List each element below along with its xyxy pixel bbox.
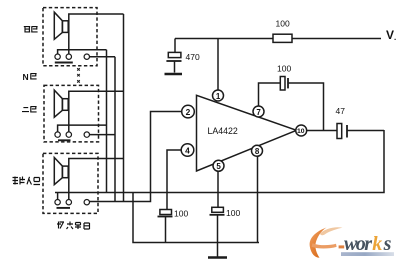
wire ground rail drop bbox=[133, 193, 259, 243]
svg-text:s: s bbox=[383, 233, 392, 255]
wire bus line 1 (terminal bars) bbox=[106, 50, 108, 193]
logo hyphen bbox=[339, 245, 345, 248]
label 二层 (second floor) bbox=[22, 107, 37, 112]
wire common return line bbox=[55, 130, 384, 193]
node box1 terminal 2 bbox=[66, 54, 71, 59]
polarity mark box2 bbox=[58, 139, 71, 141]
pin 1 bbox=[213, 90, 224, 101]
node box2 terminal 3 bbox=[84, 132, 89, 137]
e-works logo bbox=[310, 227, 394, 258]
pin 5 bbox=[213, 160, 224, 171]
capacitor C4 100 bbox=[158, 210, 173, 243]
pin 10 bbox=[296, 125, 307, 136]
node box1 terminal 3 bbox=[84, 54, 89, 59]
wire box1 terminal bar bbox=[58, 50, 107, 54]
capacitor C1 470 bbox=[166, 39, 181, 73]
wire box1 terminal3 to bus bbox=[90, 56, 116, 58]
node box3 terminal 2 bbox=[66, 200, 71, 205]
wire LS2 top to bus bbox=[69, 91, 124, 132]
label 顶层 (top floor) bbox=[24, 27, 38, 32]
svg-text:V.: V. bbox=[386, 28, 396, 42]
wire LS1 top to bus bbox=[69, 14, 124, 54]
svg-text:100: 100 bbox=[277, 64, 291, 74]
capacitor C2 100 (feedback) bbox=[280, 77, 288, 91]
wire pin5 to C5 bbox=[217, 171, 219, 207]
svg-text:2: 2 bbox=[186, 107, 191, 117]
polarity mark box1 bbox=[55, 62, 73, 64]
wire bus line 3 (speaker tops) bbox=[123, 14, 125, 202]
component value and pin labels bbox=[174, 19, 396, 219]
logo halo bbox=[320, 227, 343, 235]
resistor R1 100 bbox=[273, 34, 292, 42]
logo underline bar bbox=[341, 252, 394, 256]
pin 4 bbox=[181, 144, 194, 157]
ground for C1 bbox=[165, 73, 183, 75]
speaker box 2 dashed enclosure bbox=[44, 85, 99, 141]
continuation marks between boxes bbox=[77, 68, 80, 82]
pin 7 bbox=[253, 106, 264, 117]
wire feedback cap to output bbox=[288, 83, 324, 130]
svg-text:47: 47 bbox=[336, 106, 346, 116]
svg-text:100: 100 bbox=[226, 208, 240, 218]
wire box2 terminal3 to bus bbox=[90, 134, 116, 136]
pin 8 bbox=[252, 145, 263, 156]
wire LS3 top to bus bbox=[69, 159, 124, 200]
node box2 terminal 1 bbox=[55, 132, 60, 137]
wire V+ rail bbox=[175, 38, 381, 40]
node box3 terminal 1 bbox=[55, 200, 60, 205]
loudspeaker LS2 bbox=[54, 90, 68, 117]
label 操作人员 (operators) bbox=[13, 177, 41, 185]
speaker box 1 dashed enclosure bbox=[43, 8, 97, 66]
wire pin10 to C3 bbox=[307, 130, 337, 132]
svg-text:1: 1 bbox=[216, 92, 221, 101]
svg-text:4: 4 bbox=[185, 145, 190, 155]
wire C3 to right drop bbox=[347, 130, 384, 132]
svg-text:LA4422: LA4422 bbox=[208, 126, 238, 136]
wire box3 terminal1 stub bbox=[57, 193, 59, 200]
loudspeaker LS1 bbox=[54, 12, 68, 39]
wire pin2 to speaker terminals bbox=[90, 112, 183, 202]
ground symbol bbox=[208, 243, 227, 258]
logo e crossbar bbox=[312, 243, 337, 248]
svg-text:7: 7 bbox=[256, 108, 261, 117]
node box2 terminal 2 bbox=[66, 132, 71, 137]
wire pin8 to ground rail bbox=[257, 156, 259, 242]
node box3 terminal 3 bbox=[84, 200, 89, 205]
wire bus line 2 (terminal 3s) bbox=[114, 57, 116, 202]
wire pin7 to feedback cap bbox=[259, 83, 281, 106]
svg-text:wor: wor bbox=[344, 233, 372, 255]
svg-text:8: 8 bbox=[255, 147, 260, 156]
svg-text:100: 100 bbox=[276, 19, 290, 29]
op-amp U1 LA4422 bbox=[197, 95, 297, 171]
loudspeaker LS3 bbox=[54, 158, 68, 185]
capacitor C5 100 bbox=[210, 207, 225, 242]
wire pin1 to rail bbox=[217, 39, 219, 91]
svg-text:k: k bbox=[372, 233, 382, 255]
svg-text:100: 100 bbox=[174, 209, 188, 219]
node box1 terminal 1 bbox=[55, 54, 60, 59]
polarity mark box3 bbox=[57, 207, 71, 209]
wire pin4 to C4 bbox=[167, 150, 182, 210]
svg-text:N: N bbox=[23, 72, 29, 82]
label N层 (floor N) bbox=[23, 72, 37, 82]
wire box2 terminal bar bbox=[58, 125, 107, 132]
logo letter e bbox=[310, 228, 327, 258]
pin 2 bbox=[182, 105, 195, 118]
svg-text:5: 5 bbox=[216, 162, 221, 171]
svg-text:10: 10 bbox=[297, 128, 305, 135]
capacitor C3 47 (output) bbox=[337, 124, 347, 139]
svg-text:470: 470 bbox=[186, 52, 200, 62]
logo text works bbox=[344, 233, 392, 255]
speaker box 3 dashed enclosure bbox=[43, 153, 98, 213]
label 扬声器箱 (speaker box) bbox=[57, 222, 90, 230]
